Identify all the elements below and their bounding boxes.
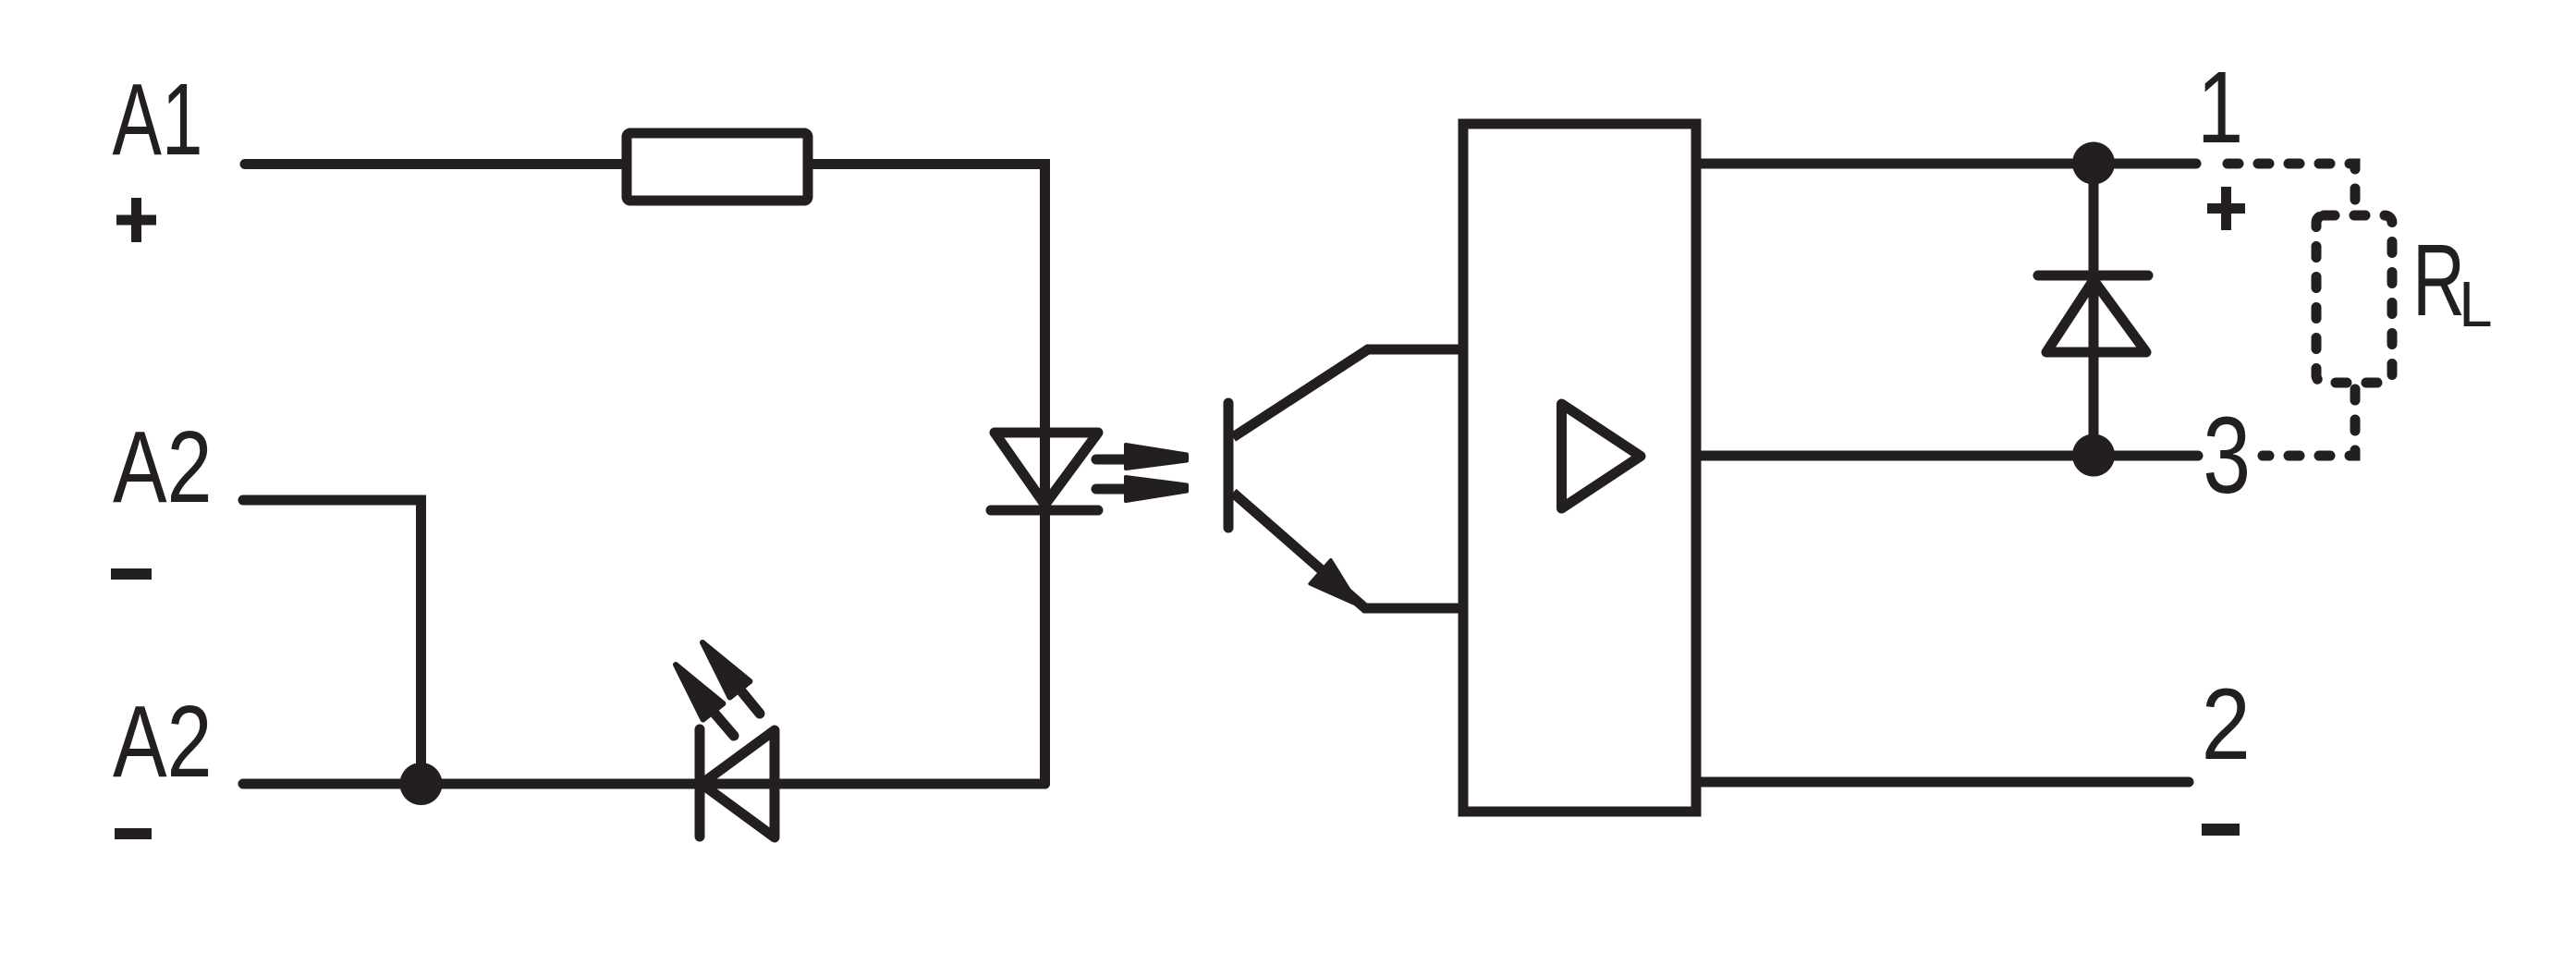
svg-text:L: L: [2459, 269, 2492, 341]
junction A2: [400, 763, 443, 805]
svg-text:A2: A2: [113, 411, 212, 525]
wire A2 upper to junction: [243, 500, 421, 784]
freewheeling diode D3 wire: [2089, 164, 2099, 456]
phototransistor Q1 emitter arrowhead: [1310, 560, 1359, 605]
minus sign at A2 lower: [115, 828, 152, 839]
resistor R1: [627, 133, 808, 201]
output block U1: [1463, 124, 1696, 812]
optocoupler LED D2 cathode bar: [991, 506, 1098, 516]
node A2 upper: [113, 411, 212, 525]
freewheeling diode D3 triangle: [2046, 280, 2146, 352]
opto light arrow upper: [1096, 445, 1187, 469]
terminal 3 label: [2203, 394, 2251, 516]
plus sign at terminal 1: [2207, 187, 2245, 230]
wire A1 to resistor: [245, 159, 627, 169]
LED D1 triangle: [702, 730, 775, 837]
LED D1 cathode bar: [695, 729, 705, 837]
svg-text:1: 1: [2197, 52, 2243, 165]
optocoupler LED D2 triangle: [995, 433, 1098, 505]
wire U1 to terminal 2: [1696, 777, 2189, 788]
wire resistor to LED cathode rail (right vertical + bottom run): [808, 165, 1045, 785]
svg-text:A2: A2: [113, 686, 212, 800]
wire U1 to terminal 3: [1696, 451, 2198, 461]
dashed wire load to terminal 3: [2263, 383, 2355, 456]
phototransistor Q1 emitter: [1233, 493, 1463, 608]
phototransistor Q1 base bar: [1224, 403, 1234, 528]
minus sign at terminal 2: [2202, 824, 2240, 836]
load resistor RL dashed box: [2316, 215, 2392, 383]
dashed wire terminal 1 to load: [2220, 164, 2355, 204]
freewheeling diode D3 cathode bar: [2038, 271, 2148, 281]
svg-text:2: 2: [2202, 667, 2251, 781]
LED D1 emission arrow left: [676, 665, 734, 736]
amplifier triangle inside U1: [1562, 404, 1642, 508]
node A2 lower: [113, 686, 212, 800]
terminal 2 label: [2202, 667, 2251, 781]
opto light arrow lower: [1096, 477, 1187, 501]
node A1: [113, 64, 203, 177]
minus sign at A2 upper: [111, 568, 152, 580]
svg-text:A1: A1: [113, 64, 203, 177]
wire A2 lower rail: [243, 779, 1045, 789]
wire U1 to terminal 1: [1696, 159, 2196, 169]
terminal 1 label: [2197, 52, 2243, 165]
svg-text:3: 3: [2203, 394, 2251, 516]
svg-text:R: R: [2412, 224, 2465, 337]
plus sign at A1: [116, 198, 156, 242]
junction node 1: [2072, 142, 2115, 185]
LED D1 emission arrow right: [702, 642, 760, 714]
junction node 3: [2072, 434, 2115, 477]
load label RL: [2412, 224, 2465, 337]
phototransistor Q1 collector: [1233, 349, 1463, 437]
